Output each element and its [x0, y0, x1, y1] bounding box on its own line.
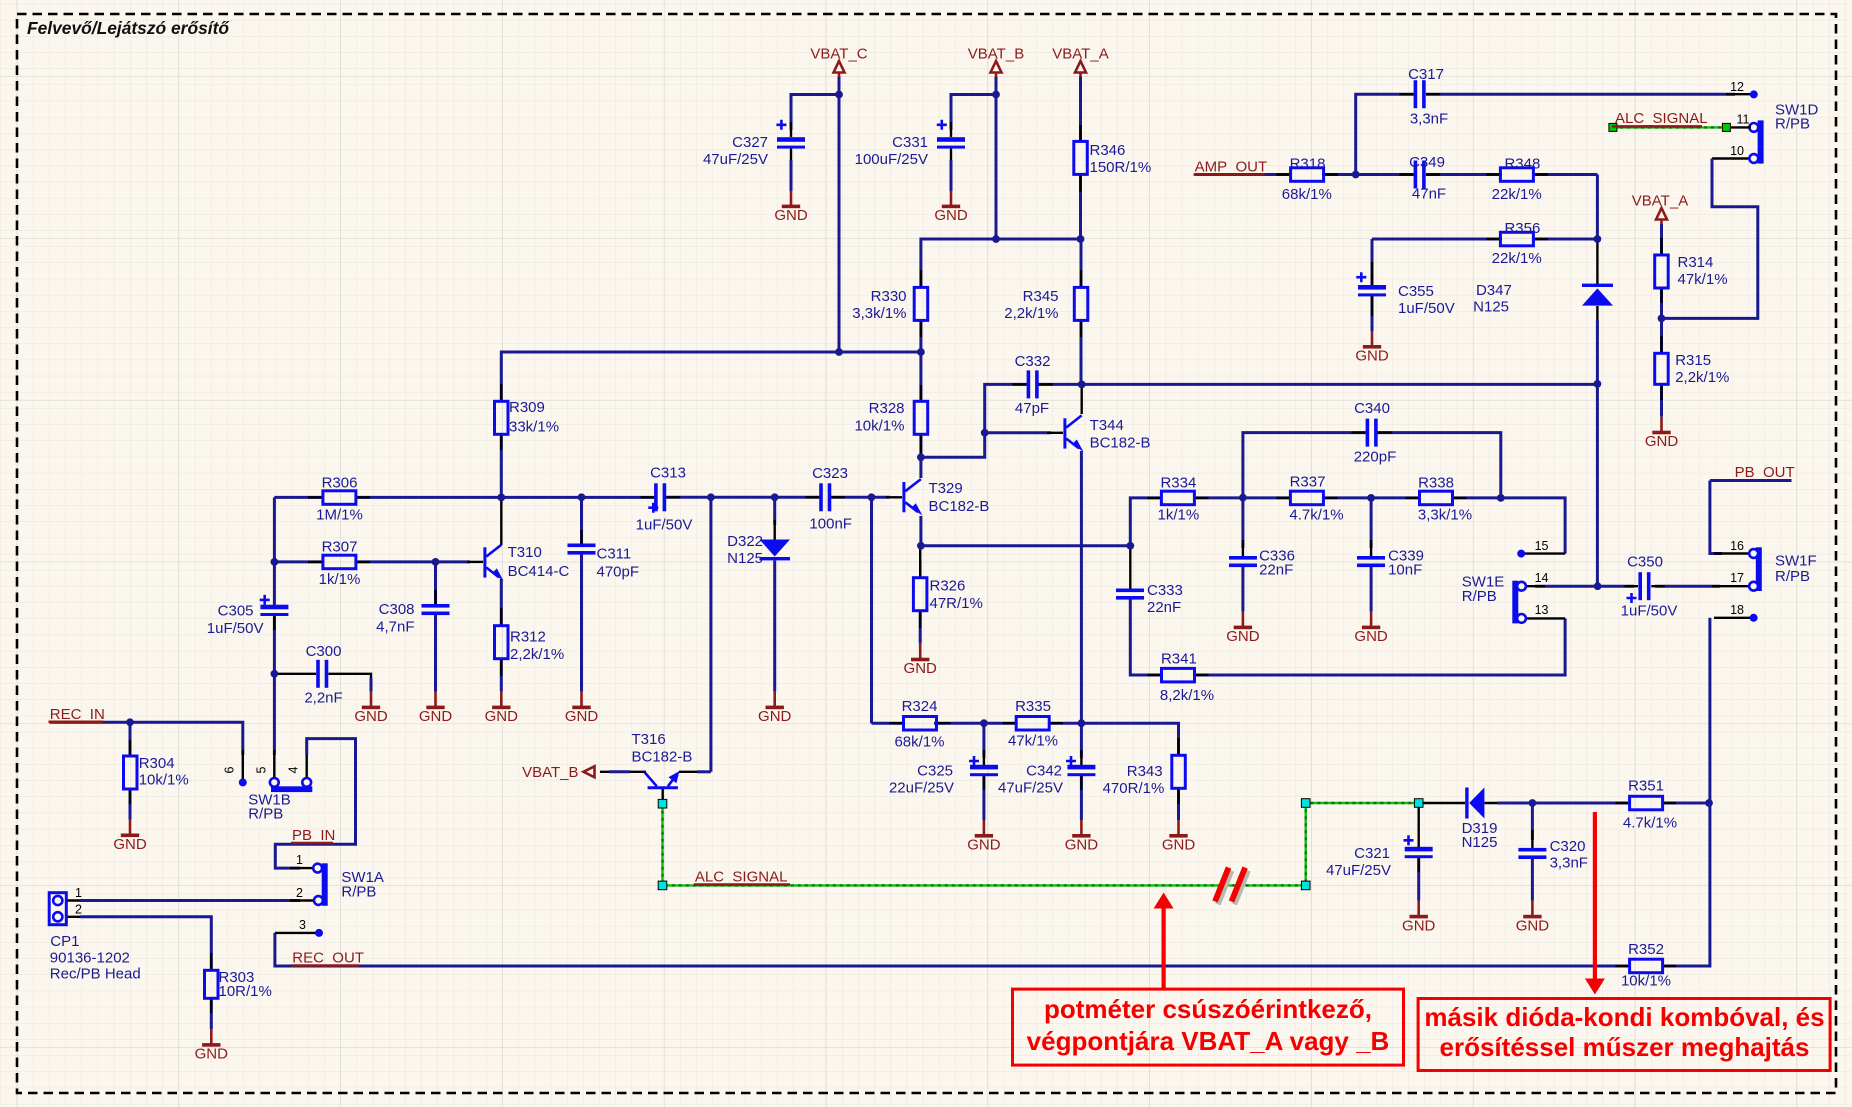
svg-text:2,2k/1%: 2,2k/1%: [510, 646, 564, 663]
svg-text:R346: R346: [1090, 142, 1126, 159]
wire R324 row left: [872, 722, 906, 725]
svg-text:SW1F: SW1F: [1775, 553, 1817, 570]
wire R324 to R335: [934, 722, 1018, 725]
wire SW1B pin5 column: [273, 674, 276, 755]
wire C308 top lead: [434, 562, 437, 604]
node R351/pin18 col: [1705, 799, 1713, 807]
wire T344 collector stub: [1080, 384, 1082, 414]
svg-text:ALC_SIGNAL: ALC_SIGNAL: [695, 869, 788, 886]
wire SW1A pin1 lead: [290, 867, 314, 869]
wire y=384 bus from T344 column to D347 column: [1082, 383, 1598, 386]
svg-text:végpontjára VBAT_A vagy _B: végpontjára VBAT_A vagy _B: [1027, 1026, 1390, 1056]
node C332/T344 col: [1078, 381, 1086, 389]
node T344 base: [981, 429, 989, 437]
power VBAT_B: [991, 61, 1002, 77]
svg-text:AMP_OUT: AMP_OUT: [1195, 159, 1268, 176]
wire C339 bottom to GND: [1370, 566, 1373, 612]
red double slash on ALC line: [1218, 871, 1248, 905]
wire R334 left column: [1130, 498, 1162, 546]
svg-text:47pF: 47pF: [1015, 400, 1049, 417]
connector CP1: [49, 893, 66, 925]
svg-text:1: 1: [75, 886, 82, 900]
node T329 emitter: [917, 542, 925, 550]
wire C333 top lead: [1129, 546, 1131, 589]
wire node 457.3 jog to T344 base column: [921, 433, 985, 458]
wire R341 row to pin13 corner: [1195, 618, 1566, 675]
svg-text:10k/1%: 10k/1%: [854, 418, 904, 435]
svg-text:R356: R356: [1504, 220, 1540, 237]
ground R303: [195, 1029, 229, 1063]
capacitor C325 polarized: [970, 765, 998, 770]
wire pin18 to R351/R352 column: [1714, 617, 1751, 619]
capacitor C323 horizontal: [819, 483, 823, 511]
ground C355: [1355, 331, 1389, 365]
resistor R337: [1290, 491, 1323, 505]
resistor R352: [1630, 959, 1663, 973]
wire bus y=352 from R309 column to R330 column: [501, 352, 921, 401]
resistor R341: [1162, 668, 1195, 682]
svg-text:R/PB: R/PB: [1462, 588, 1497, 605]
svg-text:PB_IN: PB_IN: [292, 827, 335, 844]
resistor R348: [1500, 168, 1533, 182]
resistor R328: [914, 401, 928, 434]
svg-text:22nF: 22nF: [1259, 562, 1293, 579]
svg-text:8,2k/1%: 8,2k/1%: [1160, 687, 1214, 704]
ground R315: [1645, 417, 1679, 451]
ground R312: [485, 692, 519, 726]
svg-text:REC_OUT: REC_OUT: [292, 950, 364, 967]
svg-text:3,3k/1%: 3,3k/1%: [852, 305, 906, 322]
wire C340 right to R338 node: [1378, 433, 1501, 498]
wire VBAT_B rail vertical x=996: [995, 77, 998, 240]
capacitor C340 horizontal: [1366, 419, 1370, 447]
node R318/C317: [1352, 171, 1360, 179]
wire T344 emitter column down to R335 node: [1080, 451, 1083, 723]
wire C305 bottom to C300 node: [273, 614, 276, 674]
resistor R326: [913, 578, 927, 611]
svg-text:PB_OUT: PB_OUT: [1735, 464, 1795, 481]
svg-text:C333: C333: [1147, 582, 1183, 599]
svg-text:3: 3: [299, 918, 306, 932]
node D319/C320: [1529, 799, 1537, 807]
svg-text:R307: R307: [322, 539, 358, 556]
svg-text:1: 1: [296, 853, 303, 867]
power VBAT_A right: [1656, 208, 1667, 224]
red arrow down to box2: [1593, 812, 1597, 980]
node R309/R306: [497, 494, 505, 502]
wire T316 collector column x=710.9: [709, 497, 712, 772]
node T329 base: [868, 493, 876, 501]
wire C320 bottom to GND: [1531, 859, 1534, 901]
wire pin14 row to C350: [1535, 585, 1634, 588]
wire pin13 lead: [1524, 617, 1565, 619]
wire C342 top lead: [1080, 723, 1083, 758]
node VBAT_C/C327: [835, 91, 843, 99]
svg-text:5: 5: [255, 766, 269, 773]
wire C325 bottom to GND: [982, 776, 985, 820]
svg-text:470R/1%: 470R/1%: [1103, 780, 1165, 797]
svg-text:47uF/25V: 47uF/25V: [998, 780, 1063, 797]
capacitor C300 horizontal: [316, 660, 320, 688]
svg-text:3,3k/1%: 3,3k/1%: [1418, 507, 1472, 524]
node R337/R338/C339: [1367, 494, 1375, 502]
svg-text:T329: T329: [929, 480, 963, 497]
wire C336 top lead: [1241, 498, 1244, 549]
svg-text:C305: C305: [218, 603, 254, 620]
wire R343 bottom to GND: [1177, 788, 1180, 820]
ground C327: [774, 191, 808, 225]
wire C300 right to GND drop: [329, 674, 372, 684]
resistor R356: [1500, 232, 1533, 246]
wire C308 bottom to GND: [434, 614, 437, 692]
svg-text:T316: T316: [632, 731, 666, 748]
svg-text:C340: C340: [1354, 400, 1390, 417]
transistor T344: [1063, 418, 1066, 448]
wire C323 right to T329 base: [831, 496, 890, 499]
transistor T310: [483, 547, 486, 577]
wire main bus y=497.3 left of C313: [274, 496, 324, 499]
svg-text:N125: N125: [1462, 834, 1498, 851]
wire R315 top: [1660, 318, 1663, 354]
wire C350 right to pin17: [1655, 585, 1720, 588]
svg-text:T310: T310: [508, 544, 542, 561]
capacitor C355 polarized: [1358, 285, 1386, 290]
svg-text:D347: D347: [1476, 282, 1512, 299]
ground C308: [419, 692, 453, 726]
svg-text:R337: R337: [1290, 474, 1326, 491]
node R324/C325: [980, 719, 988, 727]
capacitor C339: [1357, 556, 1385, 560]
ground R343: [1162, 820, 1196, 854]
resistor R306: [323, 491, 356, 505]
wire C331 top to VBAT_B rail: [951, 95, 996, 131]
svg-text:3,3nF: 3,3nF: [1410, 111, 1448, 128]
svg-text:2: 2: [296, 886, 303, 900]
wire D322 top lead: [773, 497, 776, 525]
svg-text:17: 17: [1730, 571, 1744, 585]
resistor R338: [1420, 491, 1453, 505]
svg-text:C355: C355: [1398, 283, 1434, 300]
wire C331 bottom lead: [950, 149, 952, 166]
svg-text:16: 16: [1730, 539, 1744, 553]
wire R307 to T310 base: [436, 560, 471, 563]
wire C340 branch left column: [1243, 433, 1366, 498]
svg-text:potméter csúszóérintkező,: potméter csúszóérintkező,: [1044, 994, 1372, 1024]
wire T329 base node to R324 column: [870, 497, 873, 723]
svg-text:R352: R352: [1628, 941, 1664, 958]
capacitor C308: [422, 604, 450, 608]
wire R345 bottom to y=384 node: [1080, 320, 1083, 385]
ground R304: [113, 820, 147, 854]
svg-text:22nF: 22nF: [1147, 599, 1181, 616]
wire R345 column VBAT_A y239-287: [1080, 239, 1083, 287]
wire T310 collector stub: [500, 497, 502, 545]
wire SW1B pin4 to PB_IN: [306, 750, 308, 779]
svg-text:4.7k/1%: 4.7k/1%: [1289, 507, 1343, 524]
node D322 bus: [771, 493, 779, 501]
resistor R351: [1630, 796, 1663, 810]
node R338/C340: [1497, 494, 1505, 502]
ground R326: [904, 644, 938, 678]
resistor R324: [904, 717, 937, 731]
svg-text:4,7nF: 4,7nF: [376, 619, 414, 636]
switch SW1F: [1756, 547, 1762, 591]
svg-text:R315: R315: [1675, 352, 1711, 369]
wire R306 left column down to R307: [273, 497, 276, 562]
svg-text:1M/1%: 1M/1%: [316, 507, 363, 524]
svg-text:22k/1%: 22k/1%: [1492, 250, 1542, 267]
svg-text:CP1: CP1: [50, 933, 79, 950]
svg-text:4: 4: [287, 766, 301, 773]
power VBAT_C: [834, 61, 845, 77]
svg-text:másik dióda-kondi kombóval, és: másik dióda-kondi kombóval, és: [1424, 1002, 1824, 1032]
svg-text:14: 14: [1535, 571, 1549, 585]
wire CP1 pin1 to SW1A pin2: [67, 899, 91, 901]
svg-text:22k/1%: 22k/1%: [1492, 186, 1542, 203]
wire T344 base lead: [985, 431, 1051, 434]
svg-text:1k/1%: 1k/1%: [319, 571, 361, 588]
ground C300: [354, 692, 388, 726]
ground C325: [967, 820, 1001, 854]
node D347/bus384: [1594, 380, 1602, 388]
svg-text:erősítéssel műszer meghajtás: erősítéssel műszer meghajtás: [1440, 1032, 1810, 1062]
svg-text:18: 18: [1730, 603, 1744, 617]
wire R304 top lead: [129, 722, 132, 757]
resistor R318: [1291, 168, 1324, 182]
svg-text:470pF: 470pF: [597, 564, 640, 581]
svg-text:1uF/50V: 1uF/50V: [1398, 300, 1455, 317]
power VBAT_B left arrow at T316: [584, 766, 595, 777]
switch SW1E: [1512, 581, 1518, 624]
resistor R309: [495, 401, 509, 434]
resistor R334: [1161, 491, 1194, 505]
resistor R335: [1016, 717, 1049, 731]
wire R346 bottom to y=239 node: [1079, 174, 1082, 239]
resistor R330: [914, 287, 928, 320]
wire R315 bottom to GND: [1660, 385, 1663, 417]
resistor R343: [1172, 755, 1186, 788]
svg-text:C350: C350: [1627, 554, 1663, 571]
svg-text:100nF: 100nF: [809, 516, 852, 533]
wire SW1B pin6 lead: [242, 750, 244, 779]
wire D319 leads: [1422, 802, 1465, 804]
wire node row y=239 from R330 column to VBAT_A column: [921, 239, 1081, 287]
wire REC_OUT long row y=966: [275, 933, 1631, 966]
svg-text:R338: R338: [1418, 475, 1454, 492]
svg-text:T344: T344: [1090, 417, 1124, 434]
svg-text:R343: R343: [1127, 763, 1163, 780]
svg-text:C342: C342: [1026, 763, 1062, 780]
svg-text:D322: D322: [727, 533, 763, 550]
wire AMP_OUT row y=174.5: [1195, 173, 1292, 176]
wire C332 left branch: [985, 384, 1030, 432]
wire C339 top lead: [1370, 498, 1373, 548]
svg-text:C331: C331: [892, 134, 928, 151]
wire R303 bottom to GND: [210, 997, 213, 1029]
wire D322 bottom to GND: [773, 561, 776, 692]
svg-text:10k/1%: 10k/1%: [139, 772, 189, 789]
resistor R304: [124, 756, 138, 789]
svg-text:R341: R341: [1161, 651, 1197, 668]
svg-text:47uF/25V: 47uF/25V: [1326, 862, 1391, 879]
red note box 1: [1013, 989, 1404, 1065]
resistor R303: [205, 970, 219, 998]
ground C321: [1402, 901, 1436, 935]
svg-text:R312: R312: [510, 629, 546, 646]
svg-text:11: 11: [1737, 113, 1750, 127]
switch SW1B: [271, 786, 312, 792]
svg-text:1uF/50V: 1uF/50V: [207, 620, 264, 637]
wire R351 row: [1661, 802, 1710, 805]
svg-text:R314: R314: [1678, 254, 1714, 271]
capacitor C305 polarized: [260, 605, 288, 610]
capacitor C321 polarized: [1405, 847, 1433, 852]
wire C321 top lead: [1417, 803, 1419, 847]
svg-text:R326: R326: [930, 578, 966, 595]
svg-text:13: 13: [1535, 603, 1549, 617]
svg-text:R/PB: R/PB: [248, 806, 283, 823]
svg-text:90136-1202: 90136-1202: [50, 950, 130, 967]
svg-text:R318: R318: [1290, 156, 1326, 173]
ground C342: [1065, 820, 1099, 854]
svg-text:2,2nF: 2,2nF: [304, 690, 342, 707]
node R330/bus352: [917, 348, 925, 356]
svg-text:47R/1%: 47R/1%: [930, 595, 983, 612]
wire D347 column x=1597.4: [1596, 175, 1599, 240]
wire C336 bottom to GND: [1241, 566, 1244, 612]
svg-text:68k/1%: 68k/1%: [894, 734, 944, 751]
wire R335 to R343 corner: [1049, 723, 1179, 756]
svg-text:R306: R306: [322, 475, 358, 492]
capacitor C333: [1116, 589, 1144, 593]
wire C311 bottom to GND: [580, 554, 583, 692]
svg-text:R309: R309: [509, 399, 545, 416]
svg-text:N125: N125: [1473, 299, 1509, 316]
wire C300 left lead: [274, 673, 316, 675]
capacitor C317 horizontal: [1414, 80, 1418, 108]
red note box 2: [1418, 999, 1830, 1071]
svg-text:R/PB: R/PB: [1775, 568, 1810, 585]
svg-text:N125: N125: [727, 550, 763, 567]
ground D322: [758, 692, 792, 726]
ground C331: [934, 191, 968, 225]
svg-text:C317: C317: [1408, 66, 1444, 83]
ground C339: [1354, 612, 1388, 646]
node R335/C342: [1078, 719, 1086, 727]
svg-text:VBAT_A: VBAT_A: [1632, 193, 1688, 210]
svg-text:10: 10: [1730, 144, 1744, 158]
svg-text:C327: C327: [732, 134, 768, 151]
svg-text:C325: C325: [917, 763, 953, 780]
node R334/R337/C336/C340: [1239, 494, 1247, 502]
wire C333 bottom to R341 corner: [1130, 600, 1162, 676]
wire C317 to pin12: [1426, 93, 1735, 96]
resistor R346: [1074, 141, 1088, 174]
svg-text:10k/1%: 10k/1%: [1621, 973, 1671, 990]
node C311 bus: [578, 493, 586, 501]
svg-text:3,3nF: 3,3nF: [1550, 855, 1588, 872]
ground C336: [1226, 612, 1260, 646]
svg-text:ALC_SIGNAL: ALC_SIGNAL: [1615, 110, 1708, 127]
svg-text:REC_IN: REC_IN: [50, 706, 105, 723]
wire R326 top lead: [919, 546, 921, 578]
resistor R312: [495, 626, 509, 659]
wire R309 bottom to bus node: [500, 434, 503, 498]
svg-text:10R/1%: 10R/1%: [219, 983, 272, 1000]
wire black stubs at resistor leads: [130, 238, 1662, 1013]
svg-text:BC182-B: BC182-B: [1090, 435, 1151, 452]
node C305/C300: [271, 670, 279, 678]
svg-text:VBAT_A: VBAT_A: [1052, 46, 1108, 63]
transistor T316 rotated: [648, 786, 678, 789]
capacitor C313 polarized horizontal: [654, 483, 658, 511]
svg-text:12: 12: [1730, 80, 1744, 94]
resistor R314: [1655, 255, 1669, 288]
wire R328 bottom to collector node y=457.3: [919, 434, 922, 478]
node REC_IN/R304: [126, 718, 134, 726]
svg-text:2: 2: [75, 903, 82, 917]
node T316 col bus: [707, 493, 715, 501]
svg-text:15: 15: [1535, 539, 1549, 553]
wire C325 top lead: [982, 723, 985, 758]
wire pin10 to VBAT_A jog: [1712, 157, 1751, 159]
node R314/R315: [1658, 315, 1666, 323]
wire C342 bottom to GND: [1080, 776, 1083, 820]
svg-text:R324: R324: [902, 698, 938, 715]
wire R304 bottom to GND: [129, 789, 132, 820]
wire PB_OUT drop to pin16: [1710, 481, 1722, 554]
svg-text:Felvevő/Lejátszó erősítő: Felvevő/Lejátszó erősítő: [27, 18, 230, 38]
svg-text:R328: R328: [869, 400, 905, 417]
svg-text:220pF: 220pF: [1354, 449, 1397, 466]
capacitor C331 polarized: [937, 137, 965, 142]
wire C320 top lead: [1531, 803, 1534, 840]
svg-text:C349: C349: [1409, 154, 1445, 171]
svg-text:C320: C320: [1550, 838, 1586, 855]
wire R314 bottom to node: [1660, 288, 1663, 319]
diode D322: [760, 540, 791, 557]
capacitor C342 polarized: [1067, 765, 1095, 770]
switch SW1D: [1758, 120, 1764, 163]
wire C311 top lead: [580, 497, 583, 544]
svg-text:1uF/50V: 1uF/50V: [636, 517, 693, 534]
svg-text:BC182-B: BC182-B: [929, 498, 990, 515]
wire SW1A pin3 lead: [275, 932, 316, 934]
svg-text:4.7k/1%: 4.7k/1%: [1623, 815, 1677, 832]
wire VBAT_C rail vertical x=839: [838, 77, 841, 353]
wire REC_IN row y=722.3: [50, 722, 243, 755]
node VBAT_C bus352: [835, 348, 843, 356]
svg-text:2,2k/1%: 2,2k/1%: [1675, 369, 1729, 386]
svg-text:1uF/50V: 1uF/50V: [1621, 603, 1678, 620]
svg-text:C300: C300: [306, 643, 342, 660]
wire R307 row: [274, 560, 324, 563]
svg-text:47k/1%: 47k/1%: [1008, 733, 1058, 750]
svg-text:VBAT_B: VBAT_B: [522, 764, 578, 781]
capacitor C350 polarized horizontal: [1638, 572, 1642, 600]
wire T316 base stub: [662, 788, 664, 800]
svg-text:R335: R335: [1015, 698, 1051, 715]
capacitor C327 polarized: [777, 137, 805, 142]
svg-text:R345: R345: [1023, 288, 1059, 305]
wire T310 emitter to R312: [500, 579, 503, 626]
svg-text:10nF: 10nF: [1388, 562, 1422, 579]
capacitor C336: [1229, 556, 1257, 560]
node R346/239: [1077, 235, 1085, 243]
wire C305 top lead: [273, 562, 276, 605]
wire R338 to pin15 corner: [1452, 498, 1565, 554]
svg-text:1k/1%: 1k/1%: [1158, 507, 1200, 524]
